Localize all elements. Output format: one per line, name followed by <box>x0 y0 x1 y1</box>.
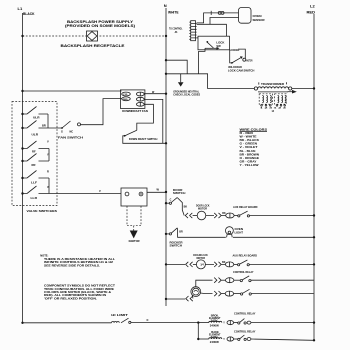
svg-text:Y - YELLOW: Y - YELLOW <box>240 163 259 167</box>
wire cooling fan row left <box>166 263 185 265</box>
wire downdraft switch loop right <box>144 99 163 143</box>
bake element <box>198 338 225 341</box>
svg-text:1 2 3 1 2 3: 1 2 3 1 2 3 <box>260 108 288 110</box>
svg-text:LLF: LLF <box>31 180 37 184</box>
svg-text:J1: J1 <box>175 30 179 34</box>
power rail L1 <box>18 6 35 323</box>
wire oven light to L2 <box>233 236 314 238</box>
connector chevrons motor feed <box>186 296 193 301</box>
node L2 cooling fan junction <box>313 263 315 265</box>
svg-text:O - ORANGE: O - ORANGE <box>240 156 260 160</box>
neutral rail N <box>164 3 179 306</box>
svg-text:IGNITOR: IGNITOR <box>129 239 140 243</box>
svg-text:SENSOR: SENSOR <box>253 18 265 22</box>
svg-text:V - VIOLET: V - VIOLET <box>240 145 258 149</box>
connector plug row E <box>225 291 233 296</box>
wire row A to L2 <box>250 215 315 217</box>
wire locked contact to cam switch <box>238 49 245 58</box>
svg-text:N: N <box>164 3 167 8</box>
wire backsplash supply line <box>23 35 167 37</box>
relay contact row D <box>234 276 251 282</box>
svg-text:UNLOCKED: UNLOCKED <box>228 65 242 69</box>
connector plug downdraft left <box>122 92 131 101</box>
svg-text:R - RED: R - RED <box>240 131 254 135</box>
wire row D to L2 <box>251 279 314 281</box>
connector chevrons left row A <box>185 213 192 218</box>
svg-text:ULR: ULR <box>33 115 40 119</box>
rocker switch oven light <box>165 228 183 235</box>
wire row E segment <box>221 293 225 295</box>
svg-text:RED: RED <box>307 11 316 15</box>
svg-text:WHITE: WHITE <box>168 11 179 15</box>
wire valve merge bus <box>48 149 50 162</box>
oven sensor <box>239 8 265 24</box>
relay contact row C <box>234 260 249 266</box>
cooling fan motor <box>193 253 208 269</box>
wire lock return staircase <box>166 60 187 74</box>
valve switch LLR <box>21 185 51 200</box>
valve switch RR <box>21 153 49 168</box>
node N downdraft junction <box>165 93 167 95</box>
wire valve 1 to 2 merge <box>47 114 49 128</box>
transformer P2 arrow <box>288 90 297 94</box>
svg-text:'OFF' OR RELAXED POSITION.: 'OFF' OR RELAXED POSITION. <box>44 296 97 300</box>
svg-text:SWITCH: SWITCH <box>170 244 183 248</box>
wire J1 to lock box <box>197 37 198 39</box>
node L1 downdraft feed junction <box>21 90 23 92</box>
transformer secondary winding 1 <box>259 94 272 104</box>
svg-text:BK: BK <box>184 206 188 209</box>
wire row C to L2 <box>249 263 314 265</box>
label to control J1 <box>169 27 183 34</box>
svg-text:(PROVIDED ON SOME MODELS): (PROVIDED ON SOME MODELS) <box>65 24 135 28</box>
label backsplash power supply <box>65 20 135 28</box>
valve switches enclosure <box>12 102 57 214</box>
lock switch box <box>198 36 230 50</box>
svg-text:R: R <box>47 170 49 174</box>
node L2 transformer junction <box>313 87 315 89</box>
wire row A segment 2 <box>206 212 226 216</box>
node L2 oven light junction <box>313 236 315 238</box>
svg-text:SEE REVERSE SIDE FOR DETAILS.: SEE REVERSE SIDE FOR DETAILS. <box>44 263 100 267</box>
wire sensor lead upper <box>197 13 239 23</box>
ignitor electrode <box>129 231 140 244</box>
svg-text:14: 14 <box>272 110 275 113</box>
svg-text:L2: L2 <box>310 4 315 9</box>
svg-text:C: C <box>170 199 172 202</box>
node N cooling fan junction <box>165 263 167 265</box>
svg-text:DOWN DRAFT SWITCH: DOWN DRAFT SWITCH <box>129 137 158 141</box>
fan switch <box>58 121 83 139</box>
connector plug row A <box>226 213 234 218</box>
wire row C segment 2 <box>205 261 225 265</box>
wire branch to bake <box>197 323 199 339</box>
svg-text:C1D: C1D <box>123 94 128 96</box>
door switch <box>165 197 178 204</box>
svg-text:WIRE COLORS: WIRE COLORS <box>240 127 268 131</box>
hi limit thermostat <box>111 313 131 324</box>
svg-text:O: O <box>147 319 149 322</box>
wire bake to L2 <box>251 339 314 340</box>
wire row E to L2 <box>251 293 313 295</box>
door lock motor <box>196 204 210 220</box>
node L2 broil junction <box>313 321 315 323</box>
svg-text:ULR: ULR <box>32 133 39 137</box>
transformer secondary pins <box>260 105 288 113</box>
valve switch ULR 1 <box>21 107 48 120</box>
downdraft fan box <box>120 90 147 113</box>
svg-text:LIGHT: LIGHT <box>235 230 244 234</box>
node N neutral tap <box>165 73 167 75</box>
connector plug row C <box>225 262 233 267</box>
wire fan switch to downdraft plug <box>81 99 122 125</box>
legend wire colors <box>240 127 268 167</box>
svg-text:LOCK CAM SWITCH: LOCK CAM SWITCH <box>228 69 255 73</box>
connector plug downdraft right <box>136 92 144 106</box>
svg-text:GR - GRAY: GR - GRAY <box>240 160 257 164</box>
svg-text:Y: Y <box>223 323 225 325</box>
relay contact row A <box>234 211 249 217</box>
svg-text:3400W: 3400W <box>210 325 220 328</box>
svg-text:Y: Y <box>223 339 225 341</box>
svg-text:RR: RR <box>32 163 36 167</box>
connector chevrons row D <box>214 278 221 283</box>
wire lock box return <box>199 48 205 74</box>
node N motor junction <box>165 298 167 300</box>
svg-text:CONTROL RELAY: CONTROL RELAY <box>233 270 254 274</box>
wire spark module feed <box>51 189 121 194</box>
wire L1 to downdraft fan plug <box>23 90 122 92</box>
svg-text:CHECK LOCAL CODES: CHECK LOCAL CODES <box>173 93 200 97</box>
connector chevrons left row C <box>186 262 193 267</box>
oven light lamp <box>226 227 244 238</box>
svg-text:G: G <box>61 130 63 133</box>
convection fan motor <box>191 287 201 297</box>
svg-text:W - WHITE: W - WHITE <box>240 135 257 139</box>
wire down draft switch to N <box>123 136 166 144</box>
svg-text:RED: RED <box>123 99 128 101</box>
svg-text:MOTOR: MOTOR <box>246 60 252 63</box>
svg-text:W: W <box>157 188 160 192</box>
wire row D segment <box>221 279 225 281</box>
svg-text:BACKSPLASH RECEPTACLE: BACKSPLASH RECEPTACLE <box>61 44 126 48</box>
wire row A segment <box>193 215 198 217</box>
node N backsplash junction <box>165 35 167 37</box>
svg-text:TRANSFORMER: TRANSFORMER <box>261 82 284 86</box>
wire downdraft switch loop inner <box>137 104 154 130</box>
node N downdraft return junction <box>165 142 167 144</box>
svg-text:AUX RELAY BOARD: AUX RELAY BOARD <box>233 205 258 209</box>
wire broil to L2 <box>251 322 314 324</box>
wire door switch to motor row <box>177 198 187 216</box>
note component symbols <box>44 284 116 301</box>
connector plug bake <box>227 337 234 341</box>
label door switch <box>173 188 186 195</box>
node N spark junction <box>165 191 167 193</box>
svg-text:SWITCH: SWITCH <box>173 191 186 195</box>
wire rocker to oven light row <box>178 228 226 237</box>
relay contact bake <box>234 335 251 341</box>
wire neutral to transformer <box>166 74 254 89</box>
node bake branch junction <box>197 338 199 340</box>
svg-text:RF: RF <box>32 150 36 154</box>
svg-text:BR: BR <box>42 124 46 128</box>
svg-text:VALVE SWITCHES: VALVE SWITCHES <box>27 209 58 213</box>
relay contact row E <box>234 289 252 295</box>
connector chevrons row E <box>214 291 221 296</box>
label grounded neutral <box>173 89 200 96</box>
wire bottom motor to row D <box>196 280 213 287</box>
svg-text:BL - BLUE: BL - BLUE <box>240 149 256 153</box>
connector chevrons right row C <box>214 262 221 267</box>
wire cam switch to lock box <box>230 50 232 63</box>
svg-text:CONTROL RELAY: CONTROL RELAY <box>234 329 256 333</box>
lock switch blade <box>205 41 220 50</box>
svg-text:BK - BLACK: BK - BLACK <box>240 138 260 142</box>
spark module <box>121 188 147 206</box>
connector plug sensor lead <box>218 11 224 14</box>
transformer T1 <box>254 82 292 92</box>
svg-text:2400W: 2400W <box>210 341 220 344</box>
label rocker switch <box>170 240 183 247</box>
svg-text:BK: BK <box>222 261 226 264</box>
wire J1 to lock circuit <box>197 24 227 36</box>
wire transformer to L2 <box>292 88 314 90</box>
svg-text:BR: BR <box>179 231 183 234</box>
note resistance heater <box>40 254 115 268</box>
down draft switch blade <box>124 130 137 136</box>
connector chevrons right row A <box>214 213 221 218</box>
svg-text:V: V <box>99 189 101 193</box>
node L2 bake junction <box>313 339 315 341</box>
wire row C segment <box>193 263 197 265</box>
node N lock return upper <box>165 59 167 61</box>
transformer secondary winding 2 <box>275 94 287 104</box>
svg-text:L1: L1 <box>18 6 23 11</box>
wire motor feed segment <box>191 296 194 299</box>
svg-text:DOWNDRAFT FAN: DOWNDRAFT FAN <box>122 109 148 113</box>
svg-text:LOCKED: LOCKED <box>230 48 240 52</box>
svg-text:HI LIMIT: HI LIMIT <box>111 313 128 317</box>
wire hi limit to elements <box>131 319 198 323</box>
valve switch LLF <box>21 170 49 185</box>
svg-text:FAN SWITCH: FAN SWITCH <box>58 135 83 139</box>
label bake element <box>209 331 221 344</box>
wire downdraft plug to N <box>144 93 166 95</box>
svg-text:V: V <box>47 140 49 144</box>
svg-text:LLR: LLR <box>31 196 38 200</box>
wire N to motor <box>166 298 185 300</box>
broil element <box>198 321 225 324</box>
svg-text:NC: NC <box>70 130 74 133</box>
label unlocked lock cam switch <box>228 65 255 73</box>
backsplash receptacle <box>87 31 98 41</box>
connector J1 strip <box>189 21 196 41</box>
node L1 backsplash junction <box>21 35 23 37</box>
wire motor to row E <box>201 292 213 295</box>
relay contact broil <box>234 319 251 325</box>
svg-text:MOTOR: MOTOR <box>198 207 207 211</box>
svg-text:CONTROL RELAY: CONTROL RELAY <box>234 311 256 315</box>
svg-text:AUX RELAY BOARD: AUX RELAY BOARD <box>233 253 258 257</box>
wire spark module to N <box>147 188 166 193</box>
node broil branch junction <box>197 321 199 323</box>
svg-text:1/4: 1/4 <box>200 264 204 267</box>
node L1 bottom corner <box>21 322 23 324</box>
pin tick on sensor lead <box>210 11 212 15</box>
wire ignitor leads dashed <box>127 206 141 231</box>
connector plug broil <box>227 321 234 325</box>
svg-text:G - GREEN: G - GREEN <box>240 142 258 146</box>
svg-text:MOTOR: MOTOR <box>197 256 206 260</box>
lock cam switch <box>231 56 246 64</box>
valve switch RF <box>21 140 49 154</box>
node L2 row A junction <box>313 214 315 216</box>
wire sensor lead lower <box>210 18 239 25</box>
connector plug row D <box>226 278 234 283</box>
svg-text:BR - BROWN: BR - BROWN <box>240 152 260 156</box>
grounded neutral arrow <box>178 74 184 87</box>
valve switch ULR 2 <box>21 121 62 137</box>
svg-text:BLACK: BLACK <box>23 12 35 16</box>
wire L1 bottom run <box>23 322 112 324</box>
label broil element <box>209 314 221 327</box>
power rail L2 <box>307 4 316 342</box>
